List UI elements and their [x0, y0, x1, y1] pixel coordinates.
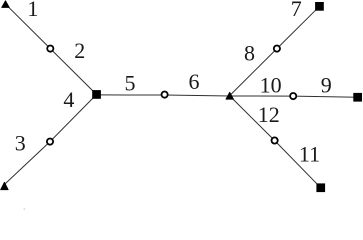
svg-text:11: 11 [299, 141, 320, 166]
node triangle T2 (center-right internal vertex) [226, 92, 234, 99]
node circle C1 (on edge 1/2) [47, 46, 53, 52]
wire edge 12-11 (triangle T2 to square S11) [230, 96, 321, 188]
svg-text:10: 10 [260, 73, 282, 98]
wire edge 3-4 (triangle T3 to square S4) [4, 95, 96, 185]
wire edge 8-7 (triangle T2 to square S7) [230, 6, 320, 95]
node circle C3 (on edge 8/7) [274, 46, 280, 52]
svg-text:12: 12 [258, 102, 280, 127]
node circle C6 (on edge 3/4) [47, 139, 53, 145]
wire edge 5-6 (square S4 to triangle T2) [97, 95, 230, 96]
node square S9 (right leaf) [353, 93, 362, 102]
svg-text:3: 3 [15, 131, 26, 156]
svg-text:5: 5 [125, 71, 136, 96]
svg-text:4: 4 [63, 87, 74, 112]
svg-text:6: 6 [189, 69, 200, 94]
node square S11 (bottom-right leaf) [316, 183, 325, 192]
faint speck artifact [24, 209, 26, 210]
svg-text:1: 1 [27, 0, 38, 21]
node square S7 (top-right leaf) [315, 2, 324, 11]
node circle C2 (on edge 5/6) [162, 92, 168, 98]
node circle C5 (on edge 12/11) [272, 137, 278, 143]
svg-text:7: 7 [291, 0, 302, 21]
node square S4 (center-left internal vertex) [92, 90, 101, 99]
node triangle T1 (top-left leaf) [2, 1, 10, 8]
svg-text:8: 8 [244, 41, 255, 66]
wire edge 1-2 (triangle T1 to square S4) [6, 4, 97, 94]
wire edge 10-9 (triangle T2 to square S9) [230, 96, 358, 97]
node triangle T3 (bottom-left leaf) [1, 182, 9, 190]
svg-text:9: 9 [321, 73, 332, 98]
node circle C4 (on edge 10/9) [290, 93, 296, 99]
svg-text:2: 2 [74, 38, 85, 63]
